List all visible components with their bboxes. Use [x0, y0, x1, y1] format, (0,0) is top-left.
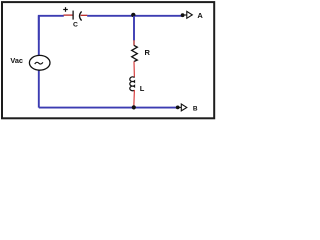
svg-text:B: B [193, 105, 198, 112]
svg-text:C: C [73, 21, 78, 28]
terminal A triangle [187, 11, 193, 18]
wire top middle (capacitor to junction) [87, 15, 134, 17]
terminal B triangle [181, 104, 187, 111]
wire top right (junction to terminal A) [134, 15, 183, 17]
terminal A stub [183, 14, 187, 16]
junction dot bottom [132, 105, 136, 109]
wire left vertical (through source to bottom) [38, 16, 40, 108]
terminal A dot [181, 13, 185, 17]
terminal B dot [176, 106, 180, 110]
inductor L coil [130, 77, 135, 91]
junction dot top [131, 13, 135, 17]
resistor R zigzag [132, 45, 138, 61]
resistor R lead top (red) [133, 40, 135, 45]
terminal B stub [178, 106, 182, 108]
capacitor C right plate (curved) [80, 11, 82, 20]
wire top-left horizontal (corner to capacitor) [39, 16, 64, 40]
capacitor C left plate [72, 11, 74, 20]
capacitor C lead left (red) [64, 14, 73, 16]
wire resistor to inductor (red) [133, 61, 135, 77]
capacitor C plus sign [63, 7, 68, 12]
wire middle vertical (junction to resistor) [133, 16, 135, 41]
inductor L lead bottom (red) [133, 90, 136, 107]
wire bottom horizontal [39, 107, 178, 109]
svg-text:A: A [197, 11, 203, 20]
svg-text:L: L [140, 84, 145, 93]
svg-text:Vac: Vac [10, 56, 23, 65]
AC source Vac [29, 55, 50, 70]
svg-text:R: R [145, 48, 151, 57]
capacitor C lead right (red) [81, 14, 88, 16]
